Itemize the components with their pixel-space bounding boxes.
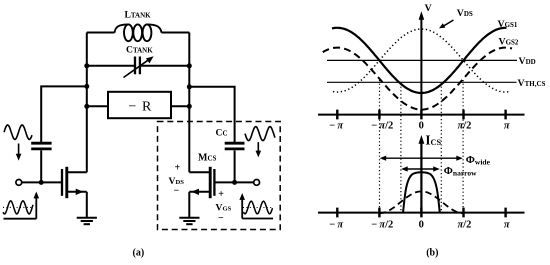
wire -R left <box>87 105 108 107</box>
dashed box <box>158 122 281 230</box>
wire C_C to gate <box>234 150 236 182</box>
svg-text:MCS: MCS <box>198 153 217 164</box>
line V_DD <box>327 59 517 61</box>
arrow down top-right <box>256 142 262 157</box>
node dot right C row <box>187 63 192 68</box>
svg-text:V: V <box>425 3 432 14</box>
axis I_CS vertical <box>419 135 425 214</box>
svg-text:VDD: VDD <box>519 56 536 67</box>
wire left rail <box>86 33 88 173</box>
negative resistance box -R <box>108 92 171 118</box>
arrow down top-left <box>16 144 22 161</box>
axis x bottom <box>318 212 525 214</box>
wire M_CS gate <box>214 181 253 183</box>
wire left coupling branch <box>41 86 87 142</box>
transistor M_CS channel bar <box>209 167 212 198</box>
wire M_CS source to ground <box>188 192 190 218</box>
wire right coupling branch to C_C <box>189 87 234 142</box>
node dot left C row <box>84 63 89 68</box>
svg-text:VDS: VDS <box>457 8 473 19</box>
capacitor left coupling plates <box>31 143 51 149</box>
svg-text:−: − <box>218 213 224 224</box>
wire M1 source to ground <box>86 192 88 218</box>
guide dotted vertical narrow-right <box>440 83 442 213</box>
svg-text:+: + <box>218 189 224 200</box>
svg-text:VTH,CS: VTH,CS <box>518 78 546 89</box>
wire M_CS drain <box>189 171 210 173</box>
curve V_DS dotted <box>333 29 509 92</box>
node dot right coupling <box>187 84 192 89</box>
svg-text:− R: − R <box>129 99 153 114</box>
svg-text:−: − <box>174 185 180 196</box>
curve V_GS1 solid <box>332 28 507 93</box>
signal squiggle top-right <box>245 127 275 141</box>
arrow M1 source <box>76 189 84 195</box>
guide dotted vertical narrow-left <box>400 83 402 213</box>
icon growing-wave bottom-left <box>3 192 39 219</box>
svg-text:− π: − π <box>329 121 343 132</box>
wire right rail <box>188 33 190 173</box>
wire -R right <box>171 105 189 107</box>
node dot -R left <box>84 104 89 109</box>
transistor M_CS gate bar <box>213 169 215 196</box>
svg-text:π: π <box>504 220 510 231</box>
signal squiggle top-left <box>4 125 32 139</box>
line V_TH,CS <box>327 81 517 83</box>
varactor arrow <box>124 56 154 77</box>
wire left cap to gate <box>40 150 42 182</box>
arrow phi wide <box>380 156 463 161</box>
svg-text:(a): (a) <box>133 247 145 258</box>
svg-text:VGS2: VGS2 <box>499 36 519 47</box>
arrow phi narrow <box>401 166 440 171</box>
svg-text:CTANK: CTANK <box>126 44 153 55</box>
arrow M_CS source <box>191 189 199 195</box>
terminal left <box>16 180 22 186</box>
wire M1 drain <box>67 171 87 173</box>
node dot left coupling <box>84 84 89 89</box>
axis x top <box>318 114 525 116</box>
guide dotted vertical wide-left <box>379 80 381 213</box>
svg-text:π: π <box>504 121 510 132</box>
curve I_CS wide dashed pulse <box>379 191 463 213</box>
svg-text:− π: − π <box>329 220 343 231</box>
node dot -R right <box>187 104 192 109</box>
label V_DS pointer arrow <box>439 20 454 28</box>
ground left <box>77 218 97 225</box>
ticks x bottom <box>337 208 505 218</box>
svg-text:π/2: π/2 <box>457 220 471 231</box>
capacitor C_TANK plates <box>135 57 140 75</box>
wire tank top rail <box>87 32 190 34</box>
curve I_CS narrow solid pulse <box>403 172 440 213</box>
svg-text:0: 0 <box>419 220 424 231</box>
guide dotted vertical wide-right <box>462 80 464 213</box>
ticks x top <box>337 110 505 120</box>
terminal right <box>254 180 260 186</box>
svg-text:− π/2: − π/2 <box>371 121 393 132</box>
transistor M1 gate bar <box>61 169 63 196</box>
wire M1 source <box>67 191 87 193</box>
ground right <box>179 218 199 225</box>
svg-text:(b): (b) <box>426 247 438 258</box>
wire left gate <box>22 181 62 183</box>
axis V vertical <box>419 11 425 115</box>
svg-text:0: 0 <box>419 121 424 132</box>
transistor M1 channel bar <box>65 167 68 198</box>
node dot M_CS gate <box>232 180 237 185</box>
svg-text:+: + <box>175 163 181 174</box>
inductor LTANK <box>115 24 162 41</box>
icon growing-wave bottom-right <box>239 193 273 219</box>
wire M_CS source <box>189 191 210 193</box>
curve V_GS2 dashed <box>323 48 512 110</box>
capacitor C_C plates <box>225 143 245 149</box>
svg-text:− π/2: − π/2 <box>371 220 393 231</box>
wire tank C row <box>87 65 190 67</box>
svg-text:CC: CC <box>216 127 228 138</box>
node dot left gate <box>39 180 44 185</box>
svg-text:VGS1: VGS1 <box>498 19 518 30</box>
svg-text:π/2: π/2 <box>457 121 471 132</box>
svg-text:LTANK: LTANK <box>125 10 152 21</box>
